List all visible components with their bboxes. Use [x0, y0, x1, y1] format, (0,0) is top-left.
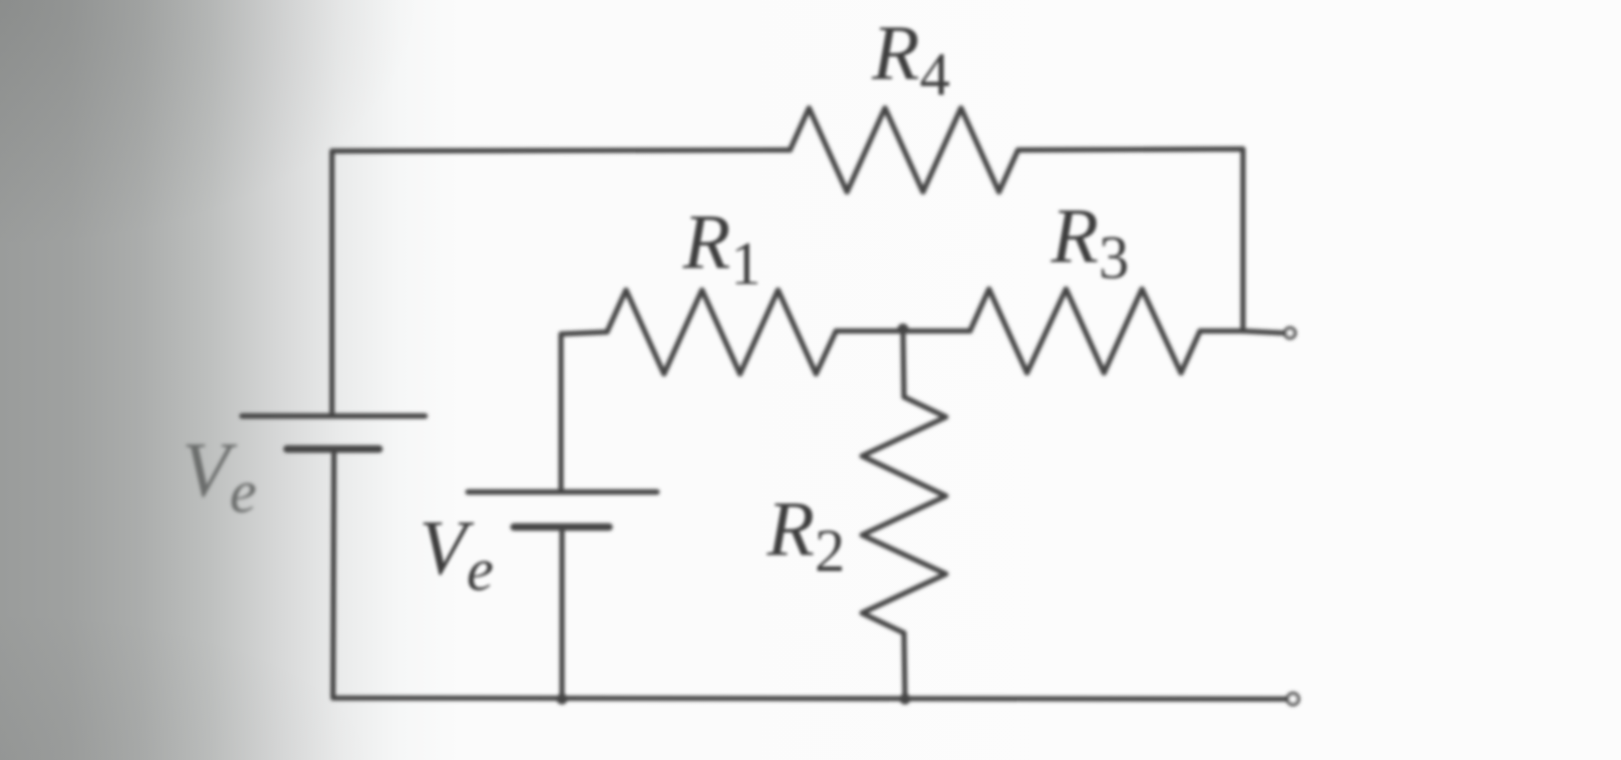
wire: R4 right to top-right corner and down [1018, 149, 1243, 331]
label V_e left battery [182, 431, 257, 516]
resistor R2 [862, 397, 946, 633]
wire: node down to R2 [903, 331, 904, 397]
battery V_e left short plate [287, 445, 379, 453]
label R1 [683, 203, 761, 288]
terminal: right middle open circle [1285, 328, 1295, 338]
resistor R1 [607, 290, 836, 374]
label V_e second battery [419, 509, 494, 594]
resistor R4 [790, 108, 1018, 192]
junction node: second battery on bottom rail [557, 694, 568, 705]
junction node: R1/R3/R2 [898, 324, 909, 335]
label R4 [872, 14, 950, 99]
wire: left battery bottom down and bottom rail [333, 449, 1286, 699]
junction node: R2 on bottom rail [900, 694, 911, 705]
label R3 [1051, 197, 1129, 282]
resistor R3 [970, 289, 1200, 373]
battery V_e second short plate [514, 523, 609, 531]
wire: stub from second battery up to R1 [561, 332, 607, 492]
battery V_e second long plate [468, 489, 657, 495]
wire: R1 to R3 through node [836, 328, 970, 333]
terminal: bottom-right open circle [1288, 694, 1299, 705]
label R2 [767, 490, 845, 575]
wire: left battery top to top rail [332, 150, 790, 416]
wire: second battery bottom to bottom rail [559, 527, 564, 699]
wire: R2 bottom to bottom rail [904, 633, 905, 699]
wire: R3 to right corner [1200, 328, 1243, 333]
wire: right stub to output terminal [1243, 331, 1282, 333]
battery V_e left long plate [242, 413, 425, 419]
